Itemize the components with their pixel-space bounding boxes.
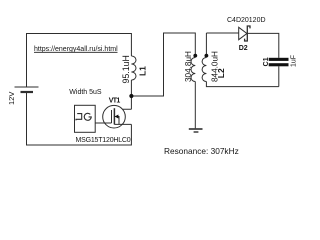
svg-text:C4D20120D: C4D20120D	[227, 17, 266, 24]
svg-text:Width 5uS: Width 5uS	[69, 89, 102, 96]
svg-text:95.1uH: 95.1uH	[121, 55, 131, 83]
svg-text:304.8uH: 304.8uH	[184, 51, 193, 82]
svg-text:L1: L1	[138, 66, 148, 76]
svg-text:12V: 12V	[7, 92, 16, 105]
svg-text:Resonance: 307kHz: Resonance: 307kHz	[164, 146, 239, 156]
svg-text:C1: C1	[263, 57, 270, 66]
svg-text:L2: L2	[216, 68, 226, 78]
svg-text:1uF: 1uF	[290, 55, 297, 67]
svg-text:VT1: VT1	[109, 97, 121, 104]
svg-text:D2: D2	[239, 45, 248, 52]
svg-text:MSG15T120HLC0: MSG15T120HLC0	[76, 137, 131, 144]
